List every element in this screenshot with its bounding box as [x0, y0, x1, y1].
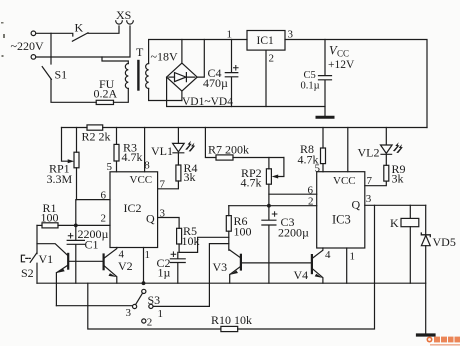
svg-text:3: 3 [126, 307, 132, 319]
resistor R9 3k [384, 165, 389, 181]
timer IC2 [110, 172, 158, 248]
svg-text:100: 100 [234, 224, 252, 238]
wire: R1 left leg down [36, 225, 38, 253]
bridge rectifier VD1~VD4 [167, 63, 198, 91]
resistor R6 100 [228, 206, 230, 216]
IC3 pin 2 wire [229, 205, 317, 207]
resistor R1 100 [37, 224, 42, 226]
resistor R10 10k [221, 326, 238, 331]
capacitor C1 2200u [67, 200, 84, 284]
wire: secondary top to DC top rail [149, 40, 247, 64]
wire: R9 bottom to IC3 pin7 [365, 181, 387, 186]
transformer T secondary winding [146, 64, 149, 89]
timer IC3 [317, 172, 365, 248]
zener diode VD5 [425, 205, 427, 235]
wire: rail drop to R10 rail [88, 283, 221, 329]
capacitor C5 0.1u [319, 40, 332, 117]
wire: main VCC rail [62, 127, 428, 129]
relay contact K [72, 33, 88, 41]
junction: RP1/R1/C1 node [74, 224, 78, 228]
wire: R5 bottom node [179, 237, 229, 252]
capacitor C4 470u [225, 40, 238, 107]
wire: K to XS left prong [88, 26, 119, 33]
wire: upper terminal to K [36, 33, 73, 36]
flash arrows of VL2 [393, 142, 403, 153]
pin 3 wire of IC1 to VCC corner [285, 40, 427, 128]
pushbutton S2 [30, 253, 36, 262]
watermark logo [427, 337, 460, 346]
svg-text:K: K [390, 216, 399, 230]
svg-text:V4: V4 [294, 268, 309, 282]
svg-text:2200µ: 2200µ [278, 225, 309, 239]
switch S1 [50, 33, 52, 64]
svg-text:V1: V1 [39, 252, 54, 266]
resistor R3 4.7k [116, 128, 118, 145]
transformer core [137, 61, 139, 90]
svg-text:1µ: 1µ [158, 265, 171, 279]
resistor R8 4.7k [322, 128, 324, 149]
IC3 pin 8 wire [347, 128, 349, 172]
wire: S3 contact 1 to riser [153, 305, 209, 307]
wire: emitter rail [37, 282, 426, 284]
wire: S3 contact1 riser to R6 bottom [209, 244, 228, 307]
node: AC terminal lower [31, 55, 36, 60]
wire: R1 to IC2 pin 2 [58, 224, 110, 226]
transistor V1 [67, 254, 69, 269]
resistor R2 2k [87, 125, 103, 130]
svg-text:V3: V3 [213, 260, 228, 274]
LED VL1 [177, 128, 179, 144]
capacitor C2 1u [170, 252, 185, 283]
svg-text:S3: S3 [148, 293, 161, 307]
svg-text:V2: V2 [118, 259, 133, 273]
wire: collector branch of V1 [37, 244, 68, 256]
transistor V4 [311, 255, 313, 273]
ground under C5 [317, 116, 333, 119]
wire: fuse to primary bottom [114, 89, 129, 103]
svg-text:1: 1 [158, 308, 164, 320]
pin 2 wire of IC1 to ground rail [265, 50, 267, 106]
LED VL2 [385, 128, 387, 145]
node: AC terminal upper [31, 31, 36, 36]
wire: R4 bottom to IC2 pin7 [158, 181, 179, 189]
wire: secondary bottom to bridge bottom vertex [149, 89, 182, 101]
capacitor C3 2200u [262, 206, 276, 284]
svg-text:C1: C1 [85, 238, 99, 252]
wire: V1 emitter to S3 contact 3 [56, 305, 132, 307]
junction: RP2/C3/pin2 node [267, 204, 271, 208]
wire: IC2 pin3 to R5 [158, 218, 180, 229]
noise speck left edge [1, 22, 5, 57]
potentiometer RP2 4.7k [268, 158, 270, 169]
resistor R4 3k [176, 165, 181, 181]
connector XS [116, 21, 123, 24]
svg-text:R10 10k: R10 10k [211, 313, 252, 327]
fuse FU 0.2A [96, 100, 113, 104]
svg-text:10k: 10k [182, 234, 200, 248]
wire: bridge negative to power ground rail [167, 77, 325, 106]
svg-text:VD5: VD5 [433, 235, 456, 249]
transformer T primary winding [125, 64, 128, 89]
potentiometer RP1 3.3M [76, 128, 78, 153]
wire: S2 bottom to emitter rail [36, 263, 38, 283]
IC2 pin 8 wire [144, 128, 146, 172]
resistor R5 10k [177, 228, 182, 244]
wire: R10 to IC3 pin3 riser [238, 205, 375, 329]
switch S3 [142, 289, 146, 293]
resistor R7 200k [205, 128, 216, 158]
svg-text:100: 100 [41, 210, 59, 224]
wire: IC2 pin1 to rail [143, 248, 145, 284]
wire: IC3 pin1 to rail [346, 248, 348, 283]
transistor V2 [102, 255, 104, 270]
svg-text:2: 2 [147, 317, 153, 329]
wire: S1 to fuse [51, 79, 96, 102]
IC3 pin 6 wire [269, 193, 317, 195]
IC2 pin 6 wire [77, 199, 111, 201]
wire: XS right prong down to lower terminal wire [36, 26, 130, 57]
relay coil K [409, 205, 411, 218]
transistor V3 [240, 255, 242, 270]
regulator IC1 [247, 31, 285, 51]
wire: branch to transformer primary top [102, 57, 128, 64]
ground main [418, 333, 435, 336]
svg-text:S2: S2 [21, 266, 34, 280]
wire: IC3 pin 3 net [365, 204, 426, 206]
flash arrows of VL1 [185, 141, 195, 152]
diode inside bridge [169, 76, 175, 78]
